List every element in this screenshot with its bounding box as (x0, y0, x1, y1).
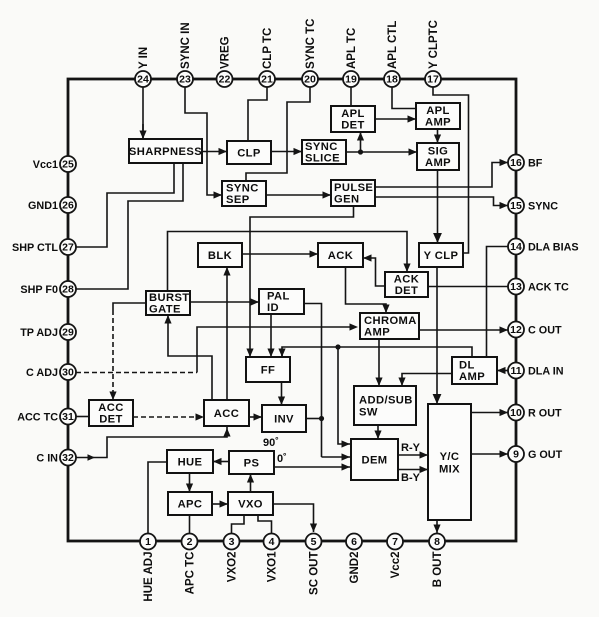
svg-text:18: 18 (386, 73, 398, 85)
block ACK (318, 243, 363, 267)
svg-text:APL TC: APL TC (346, 28, 358, 69)
svg-text:SYNC IN: SYNC IN (180, 22, 192, 69)
wire pin1 to HUE (148, 462, 167, 534)
svg-text:22: 22 (219, 73, 231, 85)
junction video to APL DET (358, 149, 363, 154)
block PAL ID (259, 289, 304, 314)
svg-text:12: 12 (510, 324, 522, 336)
svg-text:VREG: VREG (219, 36, 231, 69)
svg-text:25: 25 (62, 158, 74, 170)
svg-text:32: 32 (62, 452, 74, 464)
svg-text:R OUT: R OUT (528, 407, 562, 419)
pin 19 APL TC (343, 28, 359, 87)
svg-text:B-Y: B-Y (401, 472, 421, 484)
block PS (229, 451, 274, 474)
svg-text:APL CTL: APL CTL (387, 21, 399, 69)
pin 32 C IN (36, 450, 76, 466)
pin 8 B OUT (429, 534, 445, 588)
wire ACC to INV (249, 413, 262, 420)
wire junction to DEM chroma input (338, 347, 350, 448)
pin 9 G OUT (508, 446, 563, 462)
svg-text:G OUT: G OUT (528, 449, 563, 461)
wire SHARPNESS to pin27 SHP CTL (76, 163, 174, 247)
svg-text:APC: APC (178, 498, 203, 510)
pin 3 VXO2 (224, 534, 240, 583)
svg-text:DET: DET (341, 120, 365, 132)
block ACK DET (385, 272, 428, 297)
svg-text:17: 17 (427, 73, 439, 85)
pin 18 APL CTL (384, 21, 400, 87)
wire FF to INV (278, 382, 285, 405)
svg-text:31: 31 (62, 411, 74, 423)
pin 20 SYNC TC (302, 19, 318, 87)
svg-text:ACC TC: ACC TC (17, 411, 58, 423)
block BLK (198, 243, 242, 267)
svg-text:HUE: HUE (178, 456, 203, 468)
pin 14 DLA BIAS (508, 239, 579, 255)
block ADD/SUB SW (354, 386, 416, 425)
svg-text:29: 29 (62, 326, 74, 338)
pin 28 SHP F0 (20, 281, 76, 297)
wire VXO to pin3 VXO2 (232, 515, 245, 534)
wire DL AMP to ADD/SUB SW (398, 374, 452, 387)
svg-text:BF: BF (528, 157, 543, 169)
svg-text:6: 6 (351, 536, 357, 548)
svg-text:5: 5 (311, 536, 317, 548)
wire pin18 to APL AMP left (392, 87, 416, 109)
wire DL AMP to FF bus (282, 347, 472, 357)
pin 13 ACK TC (508, 279, 569, 295)
pin 17 Y CLPTC (425, 20, 441, 87)
svg-text:GEN: GEN (334, 194, 359, 206)
svg-text:SYNC: SYNC (226, 183, 259, 195)
wire pin30 C ADJ to CHROMA AMP (76, 323, 358, 372)
svg-text:PS: PS (244, 457, 260, 469)
wire SYNC SEP to PULSE GEN (266, 191, 331, 198)
wire ACC DET to ACC dashed (133, 413, 204, 420)
wire INV output to junction (306, 418, 322, 420)
pin 23 SYNC IN (177, 22, 193, 87)
svg-text:DLA BIAS: DLA BIAS (528, 241, 579, 253)
svg-text:R-Y: R-Y (401, 442, 421, 454)
block FF (246, 357, 290, 382)
IC package boundary (68, 79, 516, 541)
block SYNC SEP (222, 181, 266, 206)
svg-text:DLA IN: DLA IN (528, 365, 564, 377)
wire PAL ID to DEM via INV junction (304, 304, 322, 458)
block Y/C MIX (428, 404, 471, 520)
pin 22 VREG (217, 36, 233, 87)
block ACC DET (89, 400, 133, 426)
pin 31 ACC TC (17, 409, 76, 425)
wire ACK DET to pin13 ACK TC (428, 286, 508, 288)
pin 11 DLA IN (508, 363, 564, 379)
pin 2 APC TC (182, 534, 198, 595)
block DEM (351, 439, 398, 480)
block ACC (204, 400, 249, 426)
pin 15 SYNC (508, 198, 558, 214)
svg-text:4: 4 (269, 536, 275, 548)
wire SIG AMP to Y CLP thick (433, 170, 442, 243)
svg-text:Y CLPTC: Y CLPTC (428, 20, 440, 69)
wire APL AMP to SIG AMP (434, 129, 441, 143)
svg-text:CLP: CLP (237, 147, 261, 159)
svg-text:SYNC TC: SYNC TC (305, 19, 317, 69)
svg-text:DET: DET (395, 285, 419, 297)
svg-text:Vcc1: Vcc1 (33, 159, 58, 171)
svg-text:23: 23 (179, 73, 191, 85)
svg-text:0˚: 0˚ (277, 453, 287, 465)
block DL AMP (452, 357, 497, 384)
arrow into SHARPNESS top (139, 124, 146, 139)
svg-text:GND1: GND1 (28, 200, 58, 212)
svg-text:AMP: AMP (425, 157, 451, 169)
svg-text:24: 24 (137, 73, 149, 85)
wire PS to HUE (213, 458, 229, 465)
svg-text:B OUT: B OUT (432, 552, 444, 588)
pin 27 SHP CTL (12, 239, 76, 255)
svg-text:SIG: SIG (428, 146, 448, 158)
block CHROMA AMP (360, 313, 419, 339)
svg-text:10: 10 (510, 407, 522, 419)
svg-text:HUE ADJ: HUE ADJ (143, 552, 155, 602)
wire SYNC SLICE to SIG AMP (346, 148, 417, 155)
wire pin14 to DL AMP top (487, 247, 509, 358)
svg-text:13: 13 (510, 281, 522, 293)
svg-text:CLP TC: CLP TC (262, 28, 274, 69)
svg-text:DEM: DEM (361, 454, 387, 466)
svg-text:PAL: PAL (267, 291, 290, 303)
block VXO (228, 492, 273, 515)
wire CLP to SYNC SLICE (271, 148, 302, 155)
svg-text:SYNC: SYNC (528, 200, 558, 212)
svg-text:MIX: MIX (439, 464, 460, 476)
svg-text:INV: INV (274, 413, 294, 425)
svg-text:APC TC: APC TC (184, 552, 196, 595)
block SHARPNESS (129, 139, 202, 163)
svg-text:SHP F0: SHP F0 (20, 284, 58, 296)
svg-text:BURST: BURST (149, 292, 190, 304)
svg-text:PULSE: PULSE (334, 182, 373, 194)
wire pin20 to SYNC SEP top (246, 87, 310, 181)
wire APC to VXO (212, 500, 228, 507)
svg-text:ACK: ACK (328, 250, 353, 262)
pin 21 CLP TC (259, 28, 275, 87)
wire burst key bus to ACK DET (168, 232, 411, 292)
wire pin11 to DL AMP (497, 367, 508, 374)
wire pin21 to CLP top (248, 87, 267, 141)
pin 4 VXO1 (264, 534, 280, 583)
block SYNC SLICE (302, 140, 346, 165)
svg-text:Y CLP: Y CLP (424, 250, 459, 262)
svg-text:VXO: VXO (238, 498, 263, 510)
pin 1 HUE ADJ (140, 534, 156, 602)
svg-text:9: 9 (513, 448, 519, 460)
svg-text:ACC: ACC (214, 408, 239, 420)
wire Y/C MIX to pin9 G OUT (471, 450, 508, 457)
wire PULSE GEN to pin15 SYNC (375, 197, 508, 209)
wire junction to DEM 90deg input (322, 453, 351, 460)
svg-text:ACC: ACC (98, 402, 123, 414)
wire ACC to BURST GATE (164, 315, 212, 400)
wire BURST GATE to ACC DET (109, 303, 146, 400)
svg-text:SEP: SEP (226, 194, 250, 206)
arrow into FF from DL AMP bus (278, 349, 285, 358)
wire HUE to APC (186, 473, 193, 492)
svg-text:21: 21 (261, 73, 273, 85)
svg-text:DL: DL (459, 360, 475, 372)
svg-text:28: 28 (62, 283, 74, 295)
svg-text:2: 2 (187, 536, 193, 548)
block PULSE GEN (331, 180, 375, 206)
wire pin19 to APL DET top (350, 87, 352, 106)
svg-text:TP ADJ: TP ADJ (20, 327, 58, 339)
svg-text:15: 15 (510, 200, 522, 212)
svg-text:AMP: AMP (364, 327, 390, 339)
svg-text:Vcc2: Vcc2 (390, 552, 402, 579)
pin 12 C OUT (508, 322, 562, 338)
pin 30 C ADJ (26, 364, 76, 380)
block APC (168, 492, 212, 515)
svg-text:VXO1: VXO1 (266, 551, 278, 582)
wire ACK DET to ACK (363, 254, 385, 286)
svg-text:FF: FF (261, 364, 275, 376)
wire SHARPNESS to pin28 SHP F0 (76, 163, 183, 289)
svg-text:Y/C: Y/C (440, 451, 460, 463)
svg-text:ACK: ACK (394, 274, 419, 286)
wire Y CLP to Y/C MIX thick (433, 267, 442, 404)
wire PULSE GEN to FF (246, 206, 353, 357)
svg-text:30: 30 (62, 366, 74, 378)
svg-text:ID: ID (267, 302, 279, 314)
wire pin23 to SYNC SEP (185, 87, 222, 199)
block CLP (227, 141, 271, 164)
svg-text:ADD/SUB: ADD/SUB (359, 394, 413, 406)
wire Y/C MIX to pin10 R OUT (471, 409, 508, 416)
svg-text:14: 14 (510, 241, 522, 253)
wire PULSE GEN to pin16 BF (375, 159, 508, 187)
block BURST GATE (146, 291, 190, 316)
pin 16 BF (508, 155, 543, 171)
pin 25 Vcc1 (33, 156, 76, 172)
wire APL DET to APL AMP (375, 115, 416, 122)
wire pin2 to APC (189, 515, 191, 534)
svg-text:Y IN: Y IN (138, 47, 150, 69)
wire ACK to CHROMA AMP top (346, 267, 390, 313)
wire Y/C MIX to pin8 B OUT (433, 520, 440, 533)
svg-text:VXO2: VXO2 (226, 552, 238, 583)
block INV (262, 405, 306, 432)
svg-text:C ADJ: C ADJ (26, 367, 58, 379)
svg-text:SW: SW (359, 406, 378, 418)
svg-text:8: 8 (434, 536, 440, 548)
svg-text:APL: APL (426, 105, 450, 117)
svg-text:19: 19 (345, 73, 357, 85)
wire pin17 to Y CLP right (433, 87, 469, 253)
svg-text:SHP CTL: SHP CTL (12, 242, 58, 254)
wire DEM R-Y to Y/C MIX (398, 451, 428, 458)
svg-text:CHROMA: CHROMA (364, 315, 417, 327)
pin 5 SC OUT (306, 534, 322, 595)
wire PAL ID to FF (267, 314, 274, 357)
svg-text:7: 7 (392, 536, 398, 548)
svg-text:90˚: 90˚ (263, 437, 279, 449)
svg-text:27: 27 (62, 241, 74, 253)
svg-text:SC OUT: SC OUT (308, 552, 320, 595)
svg-text:DET: DET (99, 414, 123, 426)
wire CHROMA AMP to pin12 C OUT (419, 326, 508, 333)
pin 26 GND1 (28, 197, 76, 213)
wire pin24 to SHARPNESS riser (142, 87, 144, 139)
svg-text:SHARPNESS: SHARPNESS (129, 146, 202, 158)
svg-text:20: 20 (304, 73, 316, 85)
block HUE (167, 450, 213, 473)
svg-text:SYNC: SYNC (305, 141, 338, 153)
junction DL AMP bus to DEM (335, 344, 340, 349)
wire pin31 to ACC DET (76, 416, 89, 418)
wire VXO to pin4 VXO1 (258, 515, 272, 534)
svg-text:C OUT: C OUT (528, 324, 562, 336)
wire DEM B-Y to Y/C MIX (398, 466, 428, 473)
svg-text:11: 11 (510, 365, 521, 377)
svg-text:GATE: GATE (149, 304, 181, 316)
svg-text:ACK TC: ACK TC (528, 281, 569, 293)
block APL DET (331, 106, 375, 132)
junction INV PAL ID (319, 416, 324, 421)
svg-text:AMP: AMP (459, 371, 485, 383)
pin 29 TP ADJ (20, 324, 76, 340)
block SIG AMP (417, 143, 459, 170)
svg-text:3: 3 (229, 536, 235, 548)
wire PS to DEM 0deg (274, 463, 350, 470)
svg-text:APL: APL (341, 108, 365, 120)
svg-text:GND2: GND2 (349, 552, 361, 584)
wire ADD/SUB SW to DEM (374, 425, 381, 439)
wire BLK to ACK (242, 250, 318, 257)
svg-text:AMP: AMP (425, 117, 451, 129)
block APL AMP (416, 103, 460, 129)
wire BURST GATE to PAL ID (190, 298, 259, 305)
svg-text:SLICE: SLICE (305, 153, 340, 165)
wire CHROMA AMP to ADD/SUB SW (375, 339, 382, 386)
wire pin32 C IN to ACC (76, 427, 231, 461)
block Y CLP (419, 243, 463, 267)
pin 24 Y IN (135, 47, 151, 87)
svg-text:1: 1 (145, 536, 151, 548)
svg-text:26: 26 (62, 199, 74, 211)
wire SHARPNESS to CLP (202, 148, 227, 155)
pin 10 R OUT (508, 405, 562, 421)
wire junction to APL DET bottom (357, 132, 364, 152)
svg-text:16: 16 (510, 157, 522, 169)
svg-text:BLK: BLK (208, 250, 232, 262)
pin 7 Vcc2 (387, 534, 403, 579)
wire VXO to pin5 SC OUT (273, 504, 317, 532)
svg-text:C IN: C IN (36, 452, 58, 464)
pin 6 GND2 (346, 534, 362, 584)
wire ACC to BLK (223, 267, 230, 400)
wire VXO to PS (247, 474, 254, 492)
